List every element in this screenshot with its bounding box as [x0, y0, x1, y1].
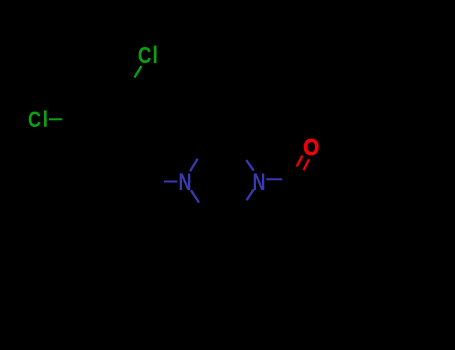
- svg-text:N: N: [253, 169, 266, 196]
- bond stub C-Cl (top Cl half-bond): [135, 66, 142, 78]
- bond stub N1-C ring (down-right): [191, 190, 199, 202]
- bond stub C=O double bond line 1 (red half): [297, 156, 303, 167]
- svg-text:O: O: [303, 134, 319, 160]
- atom N1 (piperazine nitrogen, left): [179, 169, 192, 196]
- svg-text:C: C: [138, 42, 152, 68]
- svg-text:C: C: [28, 107, 41, 132]
- bond stub N1-CH2 (benzylic, horizontal left): [164, 181, 177, 183]
- atom N2 (piperazine nitrogen, right): [253, 169, 266, 196]
- bond stub N2-C ring (down-left): [247, 189, 254, 200]
- atom Cl (top, ring chlorine): [138, 42, 157, 68]
- bond stub C-Cl (left Cl half-bond, horizontal): [49, 118, 62, 120]
- bond stub N2-C ring (up-left): [246, 160, 253, 171]
- bond stub N2-C(=O) (horizontal right): [266, 178, 282, 180]
- atom Cl (left, ring chlorine): [28, 107, 47, 132]
- svg-text:N: N: [179, 169, 192, 196]
- bond stub N1-C ring (up-right): [190, 159, 198, 172]
- bond stub C=O double bond line 2 (red half): [304, 159, 309, 170]
- atom O (carbonyl oxygen): [303, 134, 319, 160]
